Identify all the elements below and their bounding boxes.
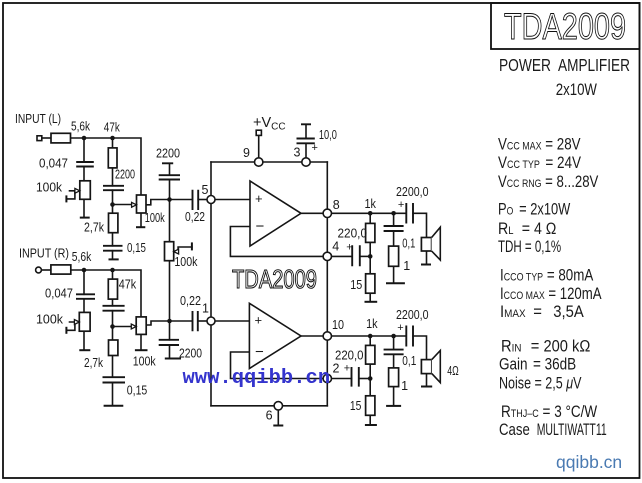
- svg-text:2,7k: 2,7k: [84, 221, 105, 235]
- svg-text:220,0: 220,0: [338, 227, 368, 241]
- svg-text:100k: 100k: [133, 355, 157, 369]
- svg-text:+: +: [398, 199, 404, 211]
- svg-text:2200,0: 2200,0: [396, 308, 429, 322]
- svg-text:2200,0: 2200,0: [396, 185, 429, 199]
- svg-text:RL = 4 Ω: RL = 4 Ω: [498, 220, 556, 238]
- svg-text:+: +: [255, 313, 263, 328]
- svg-text:4: 4: [332, 240, 339, 254]
- svg-text:10,0: 10,0: [319, 128, 337, 142]
- svg-text:8: 8: [333, 198, 340, 212]
- svg-text:+: +: [344, 362, 350, 374]
- svg-text:TDH = 0,1%: TDH = 0,1%: [498, 238, 561, 257]
- svg-text:100k: 100k: [36, 312, 64, 326]
- svg-text:INPUT (R): INPUT (R): [19, 247, 69, 261]
- svg-text:100k: 100k: [36, 181, 63, 195]
- svg-text:0,22: 0,22: [185, 210, 205, 224]
- svg-text:15: 15: [350, 399, 362, 413]
- svg-text:2200: 2200: [115, 168, 135, 182]
- svg-text:TDA2009: TDA2009: [232, 264, 317, 294]
- svg-text:2x10W: 2x10W: [556, 81, 598, 100]
- svg-text:2: 2: [333, 362, 340, 376]
- svg-text:9: 9: [243, 146, 250, 160]
- svg-text:1: 1: [403, 259, 410, 273]
- svg-text:0,047: 0,047: [39, 157, 68, 171]
- svg-text:0,047: 0,047: [45, 287, 73, 301]
- svg-text:+: +: [397, 322, 403, 334]
- svg-text:+: +: [346, 242, 352, 254]
- svg-text:4Ω: 4Ω: [447, 364, 459, 378]
- svg-text:6: 6: [266, 409, 273, 423]
- svg-text:Noise = 2,5 μV: Noise = 2,5 μV: [499, 375, 582, 393]
- svg-text:INPUT (L): INPUT (L): [15, 112, 61, 126]
- svg-text:100k: 100k: [145, 211, 166, 225]
- svg-text:−: −: [256, 218, 265, 235]
- svg-text:1k: 1k: [366, 317, 378, 331]
- svg-text:100k: 100k: [174, 255, 198, 269]
- svg-text:AMPLIFIER: AMPLIFIER: [558, 55, 630, 75]
- svg-text:1: 1: [401, 379, 408, 393]
- svg-text:TDA2009: TDA2009: [504, 6, 626, 47]
- svg-text:15: 15: [350, 278, 362, 292]
- svg-text:2200: 2200: [156, 147, 180, 161]
- svg-text:+: +: [312, 142, 318, 154]
- svg-text:MULTIWATT11: MULTIWATT11: [537, 421, 607, 439]
- svg-text:+: +: [255, 191, 263, 206]
- svg-text:−: −: [255, 344, 264, 361]
- svg-text:47k: 47k: [119, 278, 137, 292]
- svg-text:0,1: 0,1: [402, 354, 416, 368]
- svg-text:5: 5: [202, 183, 209, 197]
- svg-text:2,7k: 2,7k: [84, 356, 104, 370]
- svg-text:2200: 2200: [179, 347, 202, 361]
- svg-text:www.qqibb.cn: www.qqibb.cn: [183, 367, 331, 390]
- svg-text:qqibb.cn: qqibb.cn: [556, 452, 622, 472]
- svg-text:10: 10: [332, 318, 344, 332]
- svg-text:47k: 47k: [104, 121, 121, 135]
- svg-text:Gain = 36dB: Gain = 36dB: [499, 355, 576, 374]
- svg-text:0,15: 0,15: [127, 384, 148, 398]
- svg-text:1k: 1k: [365, 197, 377, 211]
- svg-text:1: 1: [202, 302, 209, 316]
- svg-text:3: 3: [294, 145, 301, 159]
- svg-text:0,15: 0,15: [127, 241, 146, 255]
- svg-text:5,6k: 5,6k: [71, 119, 91, 133]
- svg-text:5,6k: 5,6k: [72, 250, 92, 264]
- svg-text:POWER: POWER: [499, 55, 551, 75]
- svg-text:Case: Case: [499, 420, 530, 439]
- svg-text:0,22: 0,22: [180, 294, 201, 308]
- svg-text:0,1: 0,1: [402, 237, 415, 251]
